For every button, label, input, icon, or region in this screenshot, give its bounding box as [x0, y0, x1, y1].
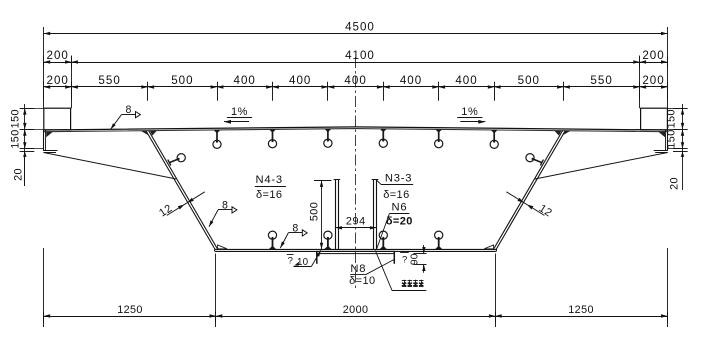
- right height chain 150/150/20: [665, 104, 687, 190]
- deck top plate: [44, 127, 668, 132]
- svg-text:1%: 1%: [461, 106, 478, 118]
- svg-text:N4-3: N4-3: [255, 174, 282, 186]
- svg-text:200: 200: [642, 49, 664, 62]
- weld callout 8 deck: [111, 104, 141, 129]
- svg-text:150: 150: [665, 109, 677, 128]
- weld mark left edge: [46, 132, 53, 138]
- ext line right outer: [667, 27, 669, 108]
- left edge plate: [43, 130, 57, 153]
- bearing pad side bars: [317, 252, 395, 264]
- weld note right: [400, 253, 409, 266]
- left curb block: [44, 108, 71, 130]
- label N6: [377, 201, 413, 248]
- right chain ext lines: [668, 109, 683, 149]
- right edge plate: [654, 130, 668, 153]
- svg-text:400: 400: [344, 74, 366, 87]
- svg-text:N3-3: N3-3: [385, 173, 412, 185]
- bottom stud 4: [435, 231, 443, 249]
- svg-text:150: 150: [665, 129, 677, 148]
- weld callout 8 bottom flange: [280, 222, 307, 248]
- weld fillet left web bottom: [218, 245, 227, 249]
- web thickness 12 left: [157, 192, 205, 220]
- dim 90 bearing pad: [409, 245, 426, 273]
- weld callout 8 left web: [209, 199, 237, 227]
- svg-text:400: 400: [455, 74, 477, 87]
- dim row1 4500: [44, 21, 668, 36]
- svg-text:N6: N6: [392, 201, 408, 213]
- left web stud: [168, 154, 185, 166]
- svg-text:δ=16: δ=16: [383, 189, 409, 201]
- svg-text:500: 500: [309, 202, 321, 221]
- left chain ext lines: [25, 109, 44, 149]
- svg-text:150: 150: [10, 129, 22, 148]
- right curb block: [641, 108, 668, 130]
- dim 294 stiffener spacing: [336, 216, 377, 230]
- bottom stud 3: [379, 231, 387, 249]
- stiffener N4 left: [334, 180, 341, 250]
- ext bottom left inner: [215, 254, 217, 323]
- svg-text:δ=10: δ=10: [349, 275, 375, 287]
- svg-text:?: ?: [288, 255, 293, 266]
- ext line left inner: [71, 56, 73, 109]
- centerline: [355, 57, 357, 291]
- label N3-3: [376, 173, 413, 201]
- bottom stud 1: [268, 231, 276, 249]
- svg-text:2000: 2000: [343, 304, 369, 316]
- bottom stud 2: [324, 231, 332, 249]
- svg-text:400: 400: [400, 74, 422, 87]
- svg-text:1%: 1%: [231, 106, 248, 118]
- svg-text:550: 550: [590, 74, 612, 87]
- slope 1% left: [224, 106, 252, 124]
- svg-text:4100: 4100: [345, 49, 375, 62]
- dim 500 stiffener height: [309, 181, 332, 250]
- bottom flange: [215, 249, 497, 251]
- svg-text:500: 500: [171, 74, 193, 87]
- svg-text:200: 200: [642, 74, 664, 87]
- svg-text:400: 400: [234, 74, 256, 87]
- right web: [494, 131, 566, 250]
- svg-text:1250: 1250: [117, 304, 143, 316]
- svg-text:4500: 4500: [345, 21, 375, 34]
- svg-text:550: 550: [98, 74, 120, 87]
- svg-text:1250: 1250: [568, 304, 594, 316]
- weld fillet right web bottom: [484, 245, 493, 249]
- svg-text:20: 20: [669, 177, 681, 190]
- svg-text:200: 200: [47, 74, 69, 87]
- deck stud 1: [213, 130, 221, 148]
- dim row2 200/4100/200: [44, 49, 668, 68]
- weld fillet left web top: [141, 131, 157, 136]
- deck stud 5: [435, 129, 443, 147]
- label bearing pad (zhizuodianban): [375, 251, 426, 291]
- weld fillet right web top: [554, 131, 570, 136]
- svg-text:?: ?: [402, 255, 407, 266]
- label N8: [349, 260, 394, 288]
- svg-text:δ=20: δ=20: [386, 215, 413, 227]
- ext bottom right outer: [667, 248, 669, 322]
- dim row3 segment chain: [44, 74, 668, 101]
- ext line right inner: [639, 56, 641, 109]
- slope 1% right: [457, 106, 485, 124]
- svg-text:δ=16: δ=16: [256, 189, 282, 201]
- right cantilever soffit: [535, 153, 667, 179]
- label N4-3: [255, 174, 286, 201]
- left web: [146, 131, 218, 250]
- svg-text:500: 500: [518, 74, 540, 87]
- svg-text:294: 294: [346, 216, 366, 228]
- ext bottom left outer: [43, 248, 45, 322]
- web thickness 12 right: [506, 192, 554, 220]
- svg-text:N8: N8: [350, 263, 366, 275]
- stiffener N3 right: [372, 180, 379, 250]
- dim bottom 1250/2000/1250: [44, 304, 668, 327]
- svg-text:150: 150: [10, 109, 22, 128]
- weld mark right edge: [658, 132, 665, 138]
- deck stud 4: [379, 129, 387, 147]
- svg-text:90: 90: [409, 253, 420, 265]
- right web stud: [526, 154, 544, 166]
- svg-text:400: 400: [289, 74, 311, 87]
- left height chain 150/150/20: [10, 104, 35, 186]
- left cantilever soffit: [44, 153, 176, 179]
- ext line left outer: [43, 27, 45, 108]
- weld note 10 left: [287, 250, 321, 267]
- svg-text:20: 20: [12, 168, 24, 181]
- deck stud 2: [268, 129, 276, 147]
- deck stud 3: [324, 129, 332, 147]
- svg-text:200: 200: [47, 49, 69, 62]
- deck stud 6: [490, 130, 498, 148]
- bearing plate N8: [317, 251, 395, 253]
- ext bottom right inner: [495, 254, 497, 323]
